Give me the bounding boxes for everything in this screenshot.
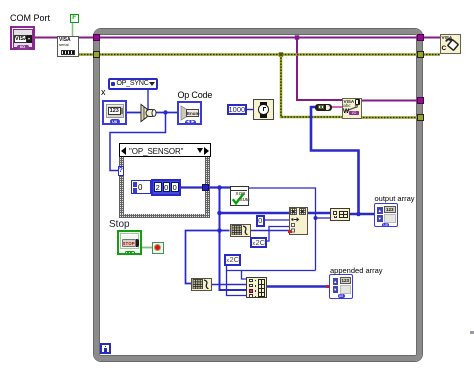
wire VISA control to VISA serial bbox=[35, 37, 58, 39]
label Stop bbox=[109, 220, 130, 229]
VISA Close node bbox=[440, 34, 461, 54]
numeric control x bbox=[102, 100, 127, 125]
while loop border bbox=[94, 29, 422, 361]
wire 0 constant to replace array subset bbox=[265, 219, 290, 221]
case structure header "OP_SENSOR" bbox=[119, 143, 211, 157]
wire enum OP_SYNC drop to join bbox=[147, 88, 149, 110]
junction main array at subset branch bbox=[217, 228, 222, 233]
wait ms function bbox=[253, 99, 275, 120]
array subset node lower bbox=[191, 278, 212, 292]
wire join output bbox=[156, 112, 178, 114]
numeric constant x2C bbox=[250, 237, 267, 249]
tunnel error loop left bbox=[93, 51, 100, 58]
xor sum checksum subVI bbox=[230, 186, 249, 206]
coercion dot appended array bbox=[326, 285, 330, 289]
junction VISA branch bbox=[295, 35, 299, 39]
wire boolean stop to conditional terminal bbox=[141, 247, 153, 249]
wire error VISA Write out to tunnel bbox=[360, 116, 418, 119]
case structure left border bbox=[119, 157, 124, 218]
wire join to case selector bbox=[110, 113, 166, 171]
wire 1000 to wait bbox=[246, 109, 253, 111]
tunnel case selector bbox=[118, 166, 125, 176]
replace array subset node bbox=[289, 207, 308, 235]
array constant index box bbox=[131, 180, 151, 194]
wire case tunnel to xor sum subVI bbox=[208, 186, 230, 188]
case structure bottom border bbox=[119, 214, 210, 218]
boolean control Stop bbox=[117, 230, 142, 255]
wire checksum horizontal to build array bottom bbox=[227, 270, 316, 272]
wire VISA Write out to tunnel bbox=[360, 100, 418, 102]
enum indicator Op Code bbox=[177, 101, 202, 125]
array constant elements 2 0 0 bbox=[151, 179, 181, 196]
junction case array output bbox=[217, 185, 222, 190]
while loop conditional terminal bbox=[152, 242, 164, 254]
junction build array output bbox=[356, 212, 361, 217]
wire main array vertical bbox=[220, 188, 247, 291]
wire xor sum output bbox=[247, 188, 316, 271]
build array node bottom bbox=[246, 277, 267, 298]
tunnel error loop right top bbox=[417, 51, 424, 58]
wire drop to build array bottom input1 bbox=[242, 271, 247, 280]
VISA Configure Serial Port node bbox=[57, 36, 79, 57]
wire array branch to array subset and left leg bbox=[186, 231, 230, 284]
label x bbox=[101, 88, 106, 97]
numeric constant 0 bbox=[256, 215, 266, 227]
wire x2C constant up to replace array subset bbox=[266, 227, 289, 242]
wire build array bottom output to appended array bbox=[266, 285, 329, 288]
wire lower array subset output to build array bbox=[210, 284, 246, 286]
wire xor sum branch to build array element bbox=[316, 217, 331, 219]
wire boolean F to VISA serial bbox=[72, 22, 74, 37]
wire string to VISA Write bbox=[331, 106, 342, 108]
wire x control to join bbox=[126, 112, 141, 114]
wire error tunnel to VISA Close bbox=[423, 53, 440, 56]
wire build array output to output array bbox=[350, 213, 375, 216]
label Op Code bbox=[178, 91, 213, 100]
wire error top run inside loop bbox=[99, 53, 418, 56]
VISA resource control COM Port bbox=[10, 26, 35, 50]
wire array up to byte array to string bbox=[311, 107, 359, 214]
enum constant OP_SYNC bbox=[108, 78, 158, 90]
tunnel error loop right mid bbox=[417, 114, 424, 121]
wire replace array subset to build array bbox=[308, 212, 330, 215]
wire VISA drop to VISA Write bbox=[297, 38, 342, 101]
iteration terminal i bbox=[100, 343, 111, 354]
wire array subset output to replace array subset bbox=[251, 230, 290, 232]
label output array bbox=[375, 194, 415, 203]
array indicator output array bbox=[374, 203, 398, 227]
byte array to string function bbox=[315, 104, 332, 112]
wire VISA top run inside loop bbox=[99, 37, 418, 39]
junction main array at replace branch bbox=[217, 211, 222, 216]
tunnel case array output bbox=[202, 184, 209, 191]
junction error branch bbox=[279, 52, 283, 56]
wire VISA serial to loop tunnel bbox=[78, 37, 95, 39]
label appended array bbox=[330, 266, 383, 275]
numeric constant x2C second bbox=[224, 254, 241, 266]
label COM Port bbox=[10, 14, 50, 23]
wire VISA tunnel to VISA Close bbox=[423, 37, 440, 39]
tunnel VISA loop right top bbox=[417, 34, 424, 41]
wire error drop to VISA Write bbox=[281, 55, 342, 118]
wire error serial to tunnel bbox=[78, 53, 95, 56]
build array node top bbox=[330, 208, 350, 221]
wire x2C 2 drop and to build array bottom input4 bbox=[227, 265, 247, 296]
wire array branch to replace array subset bbox=[220, 212, 290, 215]
artifact dash bbox=[470, 331, 474, 334]
array indicator appended array bbox=[329, 274, 353, 299]
boolean constant F bbox=[70, 14, 79, 23]
tunnel VISA loop right mid bbox=[417, 97, 424, 104]
junction xor sum to build array bbox=[314, 216, 318, 220]
tunnel VISA loop left bbox=[93, 34, 100, 41]
join numbers function bbox=[138, 103, 158, 123]
case structure right border bbox=[205, 157, 210, 218]
wire array constant to case tunnel bbox=[181, 186, 202, 188]
junction join output bbox=[163, 110, 167, 114]
VISA Write node bbox=[342, 98, 362, 119]
numeric constant 1000 bbox=[227, 104, 247, 115]
array subset node upper bbox=[230, 224, 251, 238]
